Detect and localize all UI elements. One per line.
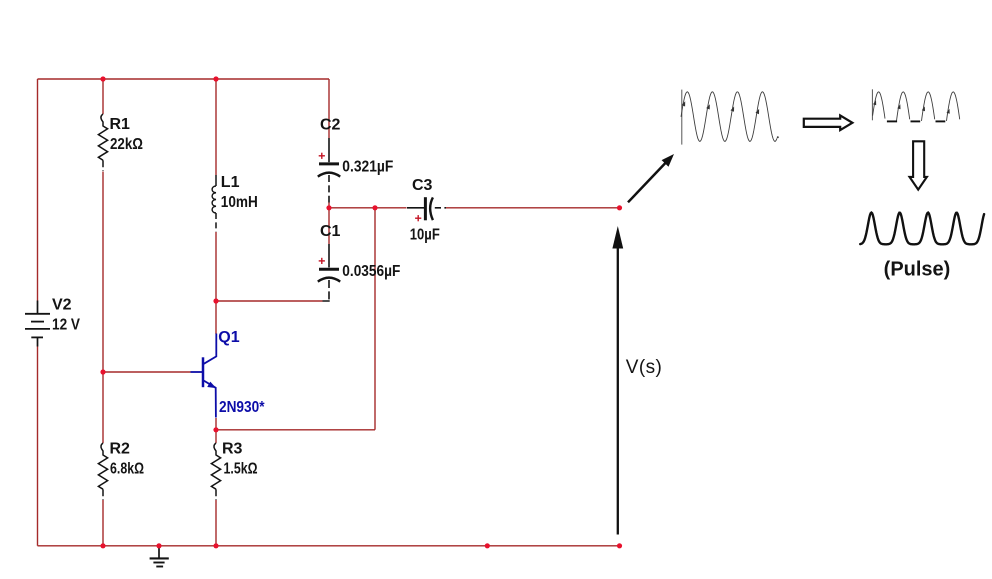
svg-text:(Pulse): (Pulse) (884, 258, 951, 280)
svg-text:Q1: Q1 (218, 329, 239, 346)
svg-text:C2: C2 (320, 116, 341, 133)
svg-text:C3: C3 (412, 177, 433, 194)
svg-text:2N930*: 2N930* (219, 399, 265, 416)
svg-text:R2: R2 (110, 440, 131, 457)
svg-text:6.8kΩ: 6.8kΩ (110, 460, 144, 477)
svg-text:V(s): V(s) (626, 357, 662, 378)
svg-text:R3: R3 (222, 440, 243, 457)
svg-text:C1: C1 (320, 223, 341, 240)
svg-text:12 V: 12 V (52, 316, 80, 333)
svg-text:22kΩ: 22kΩ (110, 136, 143, 153)
svg-text:1.5kΩ: 1.5kΩ (224, 460, 258, 477)
svg-text:L1: L1 (221, 174, 240, 191)
svg-text:0.0356µF: 0.0356µF (342, 263, 400, 280)
svg-text:V2: V2 (52, 297, 72, 314)
svg-text:10mH: 10mH (221, 194, 258, 211)
svg-text:R1: R1 (110, 116, 131, 133)
svg-text:10µF: 10µF (410, 226, 440, 243)
svg-text:0.321µF: 0.321µF (342, 159, 393, 176)
